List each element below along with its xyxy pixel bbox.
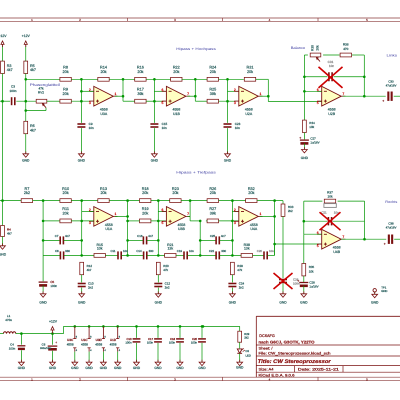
svg-text:10n: 10n: [329, 64, 334, 68]
svg-text:20k: 20k: [137, 70, 143, 74]
svg-text:GND: GND: [224, 159, 232, 163]
svg-text:Rechts: Rechts: [385, 200, 397, 204]
svg-text:6: 6: [162, 88, 164, 92]
svg-text:5: 5: [162, 221, 164, 225]
svg-text:3: 3: [234, 101, 236, 105]
svg-text:6: 6: [162, 208, 164, 212]
svg-text:330: 330: [149, 249, 154, 253]
svg-text:13k: 13k: [167, 247, 173, 251]
svg-text:10k: 10k: [97, 247, 103, 251]
svg-text:C27: C27: [310, 136, 316, 140]
svg-text:C11: C11: [110, 249, 115, 253]
svg-text:U3D: U3D: [96, 338, 103, 342]
svg-text:+12V: +12V: [22, 34, 31, 38]
svg-text:C19: C19: [177, 249, 183, 253]
svg-text:1: 1: [260, 92, 262, 96]
svg-text:2n2: 2n2: [165, 286, 170, 290]
svg-text:Title: CW Stereoprozessor: Title: CW Stereoprozessor: [258, 359, 332, 365]
svg-text:3: 3: [89, 221, 91, 225]
svg-text:20k: 20k: [173, 70, 179, 74]
svg-text:GND: GND: [71, 366, 79, 370]
svg-text:10k: 10k: [309, 269, 314, 273]
svg-text:10n: 10n: [189, 249, 194, 253]
svg-text:C22: C22: [209, 249, 215, 253]
svg-text:+12V: +12V: [49, 319, 58, 323]
svg-text:4k7: 4k7: [87, 268, 92, 272]
svg-text:U2A: U2A: [245, 112, 252, 116]
svg-text:5: 5: [317, 101, 319, 105]
svg-text:10k: 10k: [328, 194, 333, 198]
svg-text:Phasenglattteil: Phasenglattteil: [30, 83, 60, 87]
svg-text:4558: 4558: [95, 342, 102, 346]
svg-text:Size: A4: Size: A4: [259, 367, 274, 371]
svg-text:47u/16V: 47u/16V: [386, 84, 397, 88]
svg-text:4558: 4558: [328, 108, 336, 112]
svg-text:U4B: U4B: [333, 250, 340, 254]
svg-text:47u/16V: 47u/16V: [386, 226, 397, 230]
svg-text:Balance: Balance: [291, 46, 306, 50]
svg-text:5: 5: [162, 101, 164, 105]
svg-text:13k: 13k: [244, 247, 250, 251]
svg-text:47k: 47k: [163, 268, 168, 272]
svg-text:20k: 20k: [63, 191, 69, 195]
svg-text:GND: GND: [49, 366, 57, 370]
svg-text:20k: 20k: [100, 70, 106, 74]
svg-text:3: 3: [89, 101, 91, 105]
svg-text:4558: 4558: [245, 108, 253, 112]
svg-text:4k7: 4k7: [30, 128, 36, 132]
svg-text:U1B: U1B: [173, 112, 180, 116]
svg-text:GND: GND: [381, 289, 387, 293]
svg-text:GND: GND: [114, 366, 122, 370]
svg-text:GND: GND: [236, 366, 244, 370]
svg-text:+: +: [55, 341, 57, 345]
svg-text:DC6AFG: DC6AFG: [259, 334, 275, 338]
svg-text:100n: 100n: [50, 284, 57, 288]
svg-text:2k2: 2k2: [244, 336, 249, 340]
svg-text:+: +: [299, 136, 301, 140]
svg-text:20k: 20k: [63, 70, 69, 74]
svg-text:C7: C7: [55, 234, 59, 238]
svg-text:20k: 20k: [315, 45, 319, 51]
svg-text:20k: 20k: [142, 191, 148, 195]
svg-text:20k: 20k: [63, 92, 69, 96]
svg-text:1u/16V: 1u/16V: [309, 284, 318, 288]
svg-text:C16: C16: [137, 234, 143, 238]
svg-text:4k7: 4k7: [7, 68, 13, 72]
svg-text:7: 7: [187, 92, 189, 96]
svg-text:470: 470: [343, 47, 348, 51]
svg-text:20k: 20k: [210, 191, 216, 195]
svg-text:39k: 39k: [210, 92, 216, 96]
svg-text:4k7: 4k7: [30, 68, 36, 72]
svg-text:20k: 20k: [248, 191, 254, 195]
svg-text:RV2: RV2: [38, 91, 44, 95]
svg-text:U1D: U1D: [110, 338, 117, 342]
svg-text:330: 330: [221, 249, 226, 253]
svg-text:20k: 20k: [172, 191, 178, 195]
svg-text:1: 1: [115, 212, 117, 216]
svg-text:+12V: +12V: [0, 34, 7, 38]
svg-text:U4A: U4A: [250, 227, 257, 231]
svg-text:Hipass + Tiefpass: Hipass + Tiefpass: [176, 171, 216, 175]
svg-text:10n: 10n: [89, 126, 94, 130]
svg-text:GND: GND: [176, 366, 184, 370]
svg-text:GND: GND: [39, 301, 47, 305]
svg-text:C8: C8: [55, 249, 59, 253]
svg-text:100n: 100n: [147, 341, 154, 345]
svg-text:LED: LED: [246, 353, 251, 357]
svg-text:U1C: U1C: [81, 338, 88, 342]
svg-text:4558: 4558: [81, 342, 88, 346]
svg-text:100n: 100n: [169, 341, 176, 345]
svg-text:100n: 100n: [9, 346, 16, 350]
svg-text:C6: C6: [42, 342, 46, 346]
svg-text:U3B: U3B: [178, 227, 185, 231]
svg-text:GND: GND: [78, 301, 86, 305]
svg-text:4558: 4558: [110, 342, 117, 346]
svg-text:1u/16V: 1u/16V: [310, 141, 319, 145]
svg-text:GND: GND: [198, 366, 206, 370]
svg-text:7: 7: [342, 235, 344, 239]
svg-text:U3A: U3A: [100, 112, 107, 116]
svg-text:20k: 20k: [100, 191, 106, 195]
svg-text:GND: GND: [0, 253, 7, 257]
svg-text:nach G6CJ, G3OTK, Y22TO: nach G6CJ, G3OTK, Y22TO: [259, 340, 315, 345]
svg-text:GND: GND: [100, 366, 108, 370]
svg-text:100n: 100n: [191, 341, 198, 345]
svg-text:47k: 47k: [237, 268, 242, 272]
svg-text:C20: C20: [257, 249, 263, 253]
svg-text:1: 1: [115, 92, 117, 96]
svg-text:U3C: U3C: [67, 338, 74, 342]
svg-text:3: 3: [234, 221, 236, 225]
svg-text:7: 7: [187, 212, 189, 216]
svg-text:GND: GND: [301, 156, 309, 160]
svg-text:Date: 2025-11-21: Date: 2025-11-21: [298, 367, 339, 371]
svg-text:2: 2: [234, 88, 236, 92]
svg-text:U2B: U2B: [328, 112, 335, 116]
svg-text:2k2: 2k2: [288, 209, 293, 213]
svg-text:4k7: 4k7: [7, 231, 12, 235]
svg-text:GND: GND: [133, 366, 141, 370]
svg-text:4558: 4558: [173, 108, 181, 112]
svg-text:GND: GND: [155, 301, 163, 305]
svg-text:100n: 100n: [10, 89, 17, 93]
svg-text:2n2: 2n2: [239, 286, 244, 290]
svg-text:U1A: U1A: [105, 227, 112, 231]
svg-text:4558: 4558: [67, 342, 74, 346]
svg-text:Links: Links: [387, 54, 398, 58]
svg-text:5: 5: [317, 244, 319, 248]
svg-text:GND: GND: [18, 366, 26, 370]
svg-text:10n: 10n: [123, 249, 128, 253]
svg-text:330: 330: [65, 249, 70, 253]
svg-text:+: +: [384, 242, 386, 246]
svg-text:R30: R30: [310, 45, 314, 51]
svg-text:20k: 20k: [247, 70, 253, 74]
svg-text:Sheet: /: Sheet: /: [259, 347, 273, 351]
svg-text:File: CW_Stereoprozessor.kicad: File: CW_Stereoprozessor.kicad_sch: [259, 352, 331, 356]
svg-text:GND: GND: [22, 159, 30, 163]
svg-text:GND: GND: [300, 301, 308, 305]
svg-text:4n7: 4n7: [148, 234, 153, 238]
svg-text:7: 7: [342, 92, 344, 96]
svg-text:KiCad E.D.A. 9.0.6: KiCad E.D.A. 9.0.6: [259, 373, 295, 377]
svg-text:20k: 20k: [142, 212, 148, 216]
svg-text:+: +: [382, 99, 384, 103]
svg-text:GND: GND: [279, 301, 287, 305]
svg-text:20k: 20k: [63, 212, 69, 216]
svg-text:GND: GND: [371, 301, 379, 305]
svg-text:1: 1: [260, 212, 262, 216]
svg-text:470u: 470u: [5, 318, 12, 322]
svg-text:+: +: [297, 279, 299, 283]
svg-text:GND: GND: [154, 366, 162, 370]
svg-text:GND: GND: [78, 159, 86, 163]
svg-text:39k: 39k: [137, 92, 143, 96]
svg-text:20k: 20k: [210, 70, 216, 74]
svg-text:2k2: 2k2: [24, 191, 30, 195]
svg-text:10n: 10n: [269, 249, 274, 253]
svg-text:R3: R3: [7, 64, 12, 68]
svg-text:R6: R6: [30, 124, 35, 128]
svg-text:Hipass + Hochpass: Hipass + Hochpass: [176, 47, 216, 51]
svg-text:100n: 100n: [125, 341, 132, 345]
svg-text:GND: GND: [85, 366, 93, 370]
svg-text:39k: 39k: [210, 212, 216, 216]
svg-text:C25: C25: [210, 234, 216, 238]
svg-text:R5: R5: [30, 64, 35, 68]
svg-text:2: 2: [234, 208, 236, 212]
svg-text:10k: 10k: [309, 125, 314, 129]
svg-text:330u/16V: 330u/16V: [40, 347, 51, 350]
svg-text:GND: GND: [151, 159, 159, 163]
svg-text:GND: GND: [229, 301, 237, 305]
svg-text:4558: 4558: [100, 108, 108, 112]
svg-text:C14: C14: [136, 249, 142, 253]
svg-text:4n7: 4n7: [221, 234, 226, 238]
svg-text:4n7: 4n7: [65, 234, 70, 238]
svg-text:2n2: 2n2: [88, 286, 93, 290]
svg-text:10n: 10n: [162, 126, 167, 130]
svg-text:10n: 10n: [235, 126, 240, 130]
